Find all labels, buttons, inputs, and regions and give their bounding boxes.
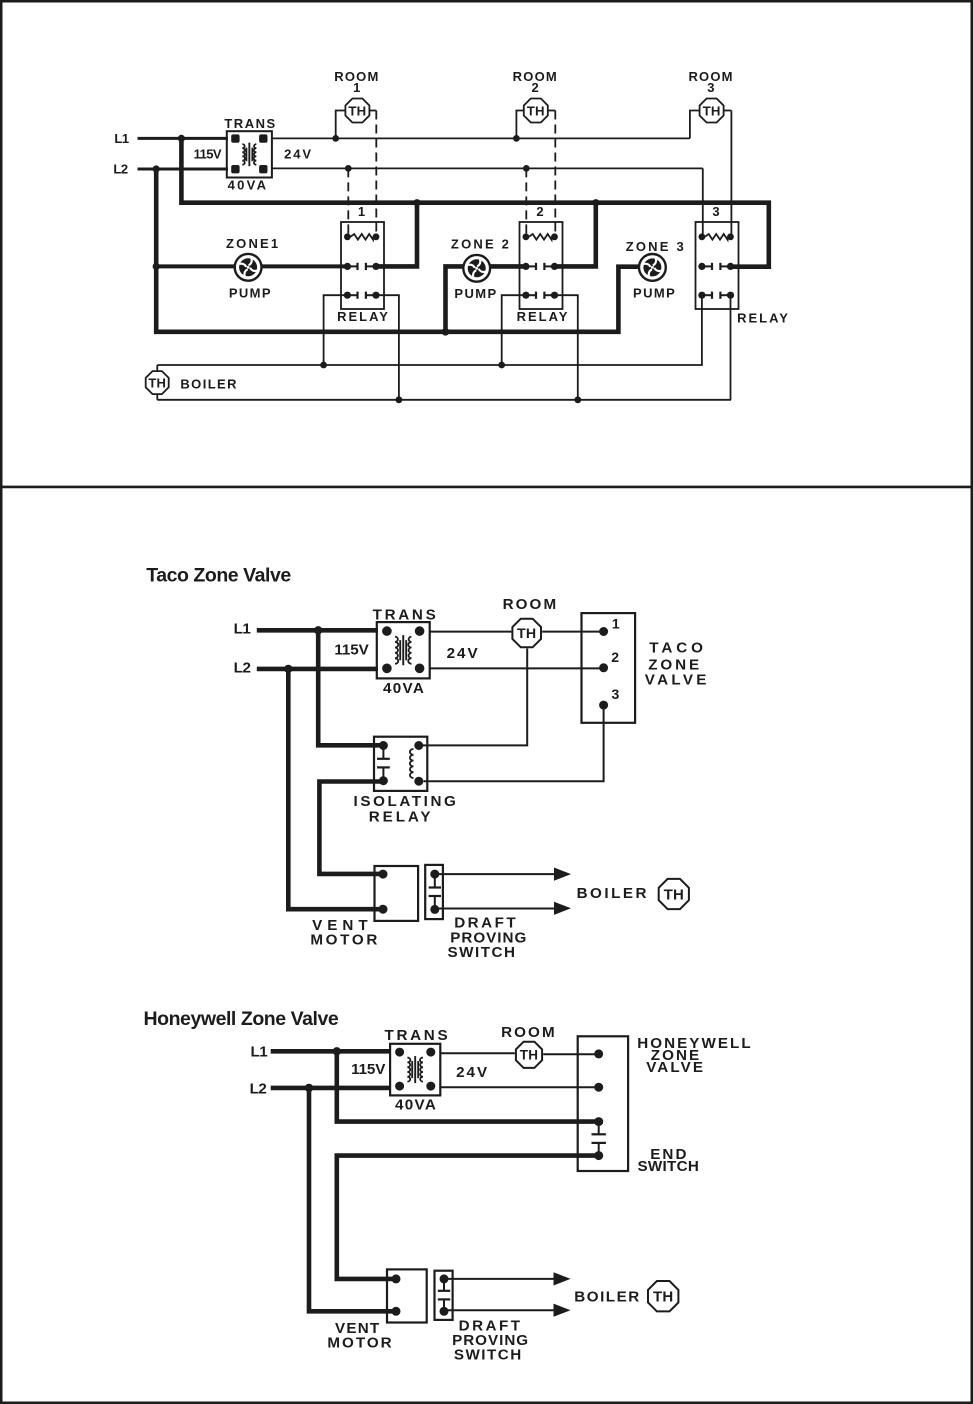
taco vent motor terminal top	[379, 870, 388, 879]
isolating relay coil	[410, 749, 414, 778]
svg-text:2: 2	[531, 80, 539, 95]
svg-text:L2: L2	[113, 162, 128, 177]
svg-text:TH: TH	[664, 886, 684, 903]
svg-text:2: 2	[611, 649, 619, 665]
hw valve terminal 3	[594, 1117, 603, 1126]
hw draft switch contact	[443, 1279, 445, 1291]
taco zone valve box	[582, 613, 636, 723]
taco thermostat TH stem	[419, 649, 527, 746]
svg-text:TRANS: TRANS	[384, 1027, 450, 1044]
svg-text:1: 1	[612, 615, 620, 631]
hw draft switch box	[435, 1271, 453, 1320]
taco valve terminal 1	[599, 627, 608, 636]
junction dot room 2 on L1	[513, 135, 520, 142]
taco vent motor box	[375, 866, 419, 921]
svg-text:2: 2	[536, 204, 544, 219]
svg-text:TH: TH	[520, 1048, 538, 1063]
hw end switch contact	[598, 1122, 600, 1135]
taco thermostat TH boiler	[659, 879, 689, 909]
junction dot row upper b	[498, 362, 505, 369]
thermostat TH room 1 right lead	[369, 110, 376, 112]
thermostat TH room 3 left lead	[690, 111, 700, 139]
transformer T1	[227, 131, 272, 177]
hw vent motor terminal top	[392, 1274, 401, 1283]
svg-text:115V: 115V	[194, 146, 222, 161]
svg-text:BOILER: BOILER	[574, 1289, 640, 1306]
relay 1 contact row 1	[347, 265, 357, 267]
svg-text:24V: 24V	[447, 645, 480, 662]
thermostat TH room 2 right lead	[548, 110, 556, 112]
svg-text:L1: L1	[234, 621, 252, 638]
junction dot bus relay2	[592, 199, 599, 206]
svg-text:RELAY: RELAY	[737, 310, 790, 325]
hw thermostat TH boiler	[648, 1281, 678, 1311]
hw valve terminal 2	[594, 1083, 603, 1092]
svg-text:L2: L2	[234, 659, 251, 676]
svg-text:3: 3	[707, 80, 715, 95]
taco wire L1 lead	[257, 628, 378, 633]
hw wire TH to valve	[543, 1053, 599, 1055]
junction dot bus relay1	[413, 199, 420, 206]
wire relay1 row2 left	[324, 295, 348, 365]
taco draft switch contact	[434, 874, 436, 887]
taco wire L1 to isolating relay	[318, 630, 383, 745]
hw wire L2 lead	[271, 1086, 391, 1091]
taco wire L2 lead	[257, 667, 378, 672]
relay 2 contact row 1	[526, 265, 536, 267]
wire L2 drop and pump bus	[156, 169, 640, 332]
svg-text:MOTOR: MOTOR	[310, 932, 380, 949]
hw valve terminal 4	[594, 1151, 603, 1160]
wire room 3 to relay coil right	[730, 111, 732, 237]
relay 2 coil	[529, 234, 552, 240]
pump zone1	[235, 254, 262, 281]
hw thermostat TH room	[516, 1042, 542, 1068]
wire bus drop to relay1	[378, 203, 417, 267]
svg-text:PUMP: PUMP	[454, 286, 497, 301]
svg-text:RELAY: RELAY	[337, 309, 390, 324]
hw wire L1 to valve	[337, 1051, 599, 1121]
svg-text:3: 3	[612, 686, 620, 702]
wire pump1 row	[156, 264, 347, 268]
svg-text:TRANS: TRANS	[224, 116, 276, 131]
svg-text:3: 3	[712, 204, 720, 219]
svg-text:PUMP: PUMP	[229, 286, 272, 301]
taco thermostat TH room	[512, 619, 541, 648]
section divider	[0, 486, 973, 489]
taco wire TH to valve 1	[542, 631, 603, 633]
svg-text:RELAY: RELAY	[517, 309, 570, 324]
svg-text:TH: TH	[348, 103, 366, 118]
svg-text:ROOM: ROOM	[501, 1024, 557, 1041]
thermostat TH room 1	[345, 99, 369, 123]
junction dot relay 2 coil on L2	[523, 165, 530, 172]
taco junction dot L2	[284, 665, 292, 673]
pump zone2	[463, 255, 490, 282]
svg-text:TRANS: TRANS	[373, 606, 439, 623]
svg-text:VALVE: VALVE	[646, 1059, 705, 1076]
taco junction dot L1	[314, 626, 322, 634]
svg-text:TH: TH	[653, 1289, 673, 1306]
pump zone3	[639, 254, 666, 281]
wire relay3 row2 right	[730, 295, 732, 400]
hw arrow bottom	[554, 1304, 571, 1317]
relay 2 box	[520, 222, 563, 309]
thermostat TH room 1 left lead	[336, 111, 346, 139]
wire room 1 to relay coil right	[375, 111, 377, 237]
svg-text:40VA: 40VA	[395, 1097, 437, 1114]
wire relay1 row2 right	[375, 295, 399, 400]
svg-text:VALVE: VALVE	[645, 671, 710, 688]
taco transformer T2	[377, 622, 430, 678]
svg-text:PUMP: PUMP	[633, 286, 676, 301]
hw wire L1 lead	[271, 1049, 391, 1054]
svg-text:ZONE 3: ZONE 3	[626, 239, 686, 254]
svg-text:TH: TH	[527, 103, 545, 118]
svg-text:SWITCH: SWITCH	[637, 1158, 699, 1175]
relay 1 box	[341, 222, 384, 309]
svg-text:115V: 115V	[351, 1061, 386, 1078]
wire L2 to relay 1 coil left	[347, 168, 349, 236]
wire L1 24V row	[272, 137, 690, 139]
taco arrow bottom	[554, 902, 571, 915]
junction dot L2 drop	[153, 165, 160, 172]
junction dot pump bus	[442, 328, 450, 336]
wire relay3 row2 left	[701, 295, 703, 365]
taco draft switch box	[425, 865, 443, 919]
taco wire draft to boiler bottom	[435, 908, 555, 910]
hw vent motor box	[387, 1269, 427, 1322]
svg-text:L1: L1	[114, 131, 129, 146]
wire L1 lead	[138, 137, 229, 140]
svg-text:24V: 24V	[284, 147, 313, 162]
hw vent motor terminal bottom	[392, 1307, 401, 1316]
boiler TH stem top	[156, 365, 158, 372]
svg-text:TH: TH	[703, 103, 721, 118]
wire L2 lead	[138, 168, 229, 171]
junction dot row lower b	[574, 396, 581, 403]
svg-text:TH: TH	[148, 375, 166, 390]
wire L2 to relay 3 coil left	[702, 168, 704, 236]
relay 3 coil	[705, 234, 728, 240]
hw arrow top	[554, 1272, 571, 1285]
hw wire draft to boiler bottom	[444, 1309, 554, 1311]
relay 2 contact row 2	[526, 294, 536, 296]
svg-text:L1: L1	[250, 1043, 268, 1060]
svg-text:1: 1	[358, 204, 366, 219]
thermostat TH room 2	[524, 99, 548, 123]
svg-text:Taco Zone Valve: Taco Zone Valve	[146, 565, 291, 587]
junction dot row upper a	[320, 362, 327, 369]
svg-text:40VA: 40VA	[383, 680, 425, 697]
hw wire draft to boiler top	[444, 1278, 554, 1280]
relay 1 coil	[350, 234, 373, 240]
svg-text:BOILER: BOILER	[577, 885, 649, 902]
hw valve box	[578, 1036, 628, 1171]
wire boiler row upper	[157, 364, 703, 366]
svg-text:ZONE 2: ZONE 2	[451, 236, 511, 251]
junction dot row lower a	[396, 396, 403, 403]
taco wire 24V top	[430, 631, 512, 633]
taco arrow top	[554, 868, 571, 881]
wire L2 24V row	[272, 167, 703, 169]
relay 3 contact row 2	[702, 294, 712, 296]
hw wire 24V bottom	[440, 1086, 598, 1088]
hw transformer T3	[390, 1044, 440, 1096]
svg-text:40VA: 40VA	[228, 177, 269, 192]
svg-text:Honeywell Zone Valve: Honeywell Zone Valve	[144, 1008, 339, 1030]
relay 1 contact row 2	[347, 294, 357, 296]
svg-text:SWITCH: SWITCH	[454, 1347, 523, 1364]
junction dot relay 1 coil on L2	[345, 165, 352, 172]
thermostat TH room 3 right lead	[724, 110, 732, 112]
hw wire end switch to vent motor	[337, 1156, 599, 1279]
taco wire L2 to vent motor	[288, 669, 383, 909]
thermostat TH boiler	[146, 371, 169, 394]
wire L2 to relay 2 coil left	[525, 168, 527, 236]
thermostat TH room 3	[700, 99, 724, 123]
svg-text:MOTOR: MOTOR	[327, 1334, 393, 1351]
relay 3 box	[696, 222, 739, 309]
junction dot pump1 row	[153, 263, 160, 270]
taco wire 24V bottom	[430, 667, 604, 669]
svg-text:TH: TH	[517, 626, 536, 642]
taco valve terminal 3	[599, 701, 608, 710]
taco wire valve3 to relay	[424, 709, 604, 781]
svg-text:SWITCH: SWITCH	[448, 944, 517, 961]
taco valve terminal 2	[599, 663, 608, 672]
wire relay2 row2 left	[502, 295, 526, 365]
hw wire 24V top	[440, 1052, 515, 1054]
wire relay2 row2 right	[555, 295, 578, 400]
junction dot room 1 on L1	[332, 135, 339, 142]
wire room 2 to relay coil right	[554, 111, 556, 237]
svg-text:L2: L2	[250, 1081, 267, 1098]
svg-text:24V: 24V	[456, 1064, 489, 1081]
svg-text:ROOM: ROOM	[503, 596, 559, 613]
hw junction dot L2	[305, 1084, 313, 1092]
isolating relay contact	[382, 746, 384, 759]
isolating relay box	[374, 737, 427, 791]
taco vent motor terminal bottom	[379, 905, 388, 914]
svg-text:1: 1	[353, 80, 361, 95]
boiler TH stem bottom	[156, 394, 158, 400]
svg-text:ZONE1: ZONE1	[226, 236, 280, 251]
svg-text:BOILER: BOILER	[180, 376, 238, 391]
taco wire isolating relay to vent motor	[319, 782, 383, 874]
junction dot L1 bus	[178, 135, 185, 142]
wire pump2 row	[446, 266, 527, 331]
taco wire draft to boiler top	[435, 873, 555, 875]
wire boiler row lower	[157, 399, 731, 401]
wire 115V bus	[181, 138, 768, 266]
wire bus drop to relay2	[556, 203, 596, 267]
svg-text:RELAY: RELAY	[369, 808, 434, 825]
thermostat TH room 2 left lead	[516, 111, 523, 139]
hw valve terminal 1	[594, 1049, 603, 1058]
relay 3 contact row 1	[702, 265, 712, 267]
svg-text:TACO: TACO	[649, 640, 707, 657]
svg-text:115V: 115V	[334, 642, 369, 659]
hw wire L2 to vent motor	[309, 1088, 396, 1311]
hw junction dot L1	[333, 1047, 341, 1055]
